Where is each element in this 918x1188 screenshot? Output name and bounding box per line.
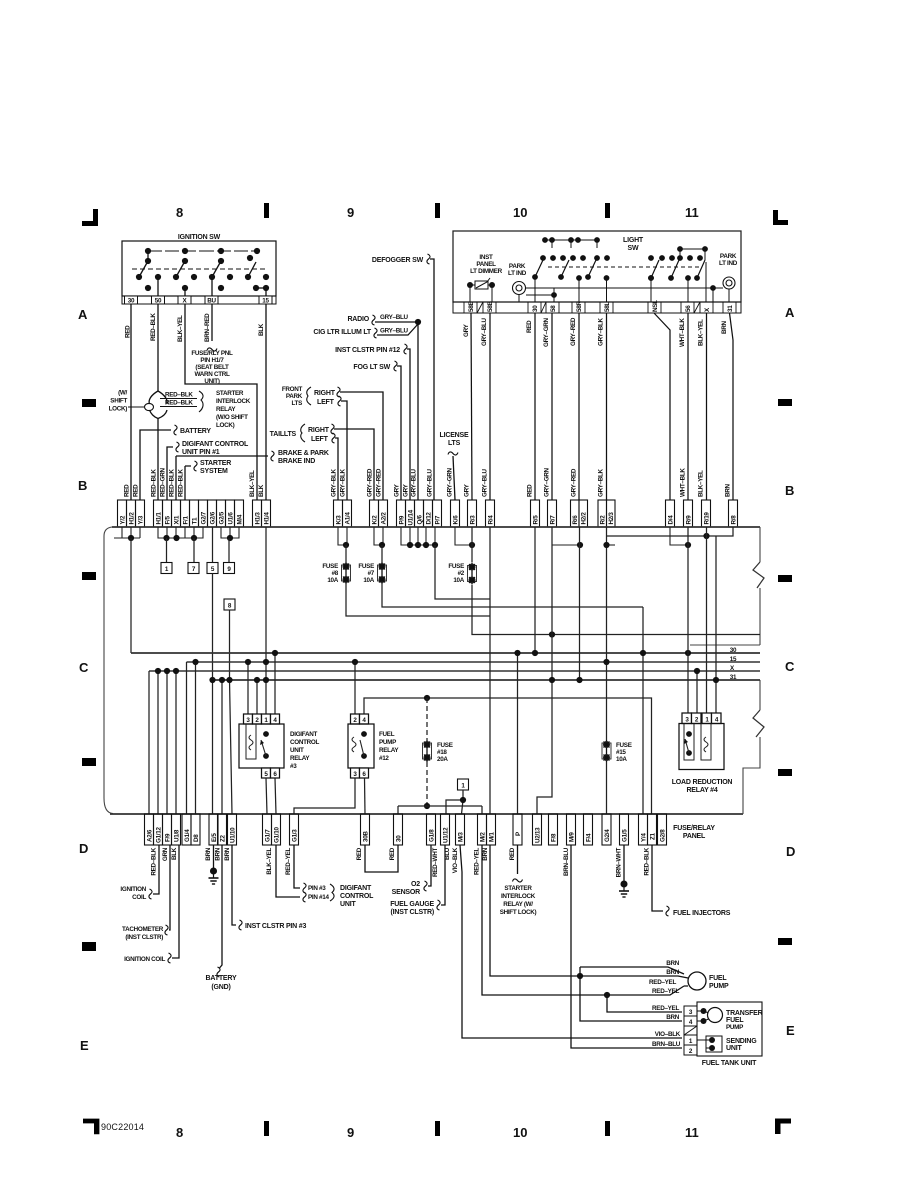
fuse 18 [423, 740, 432, 762]
svg-text:SHIFT: SHIFT [110, 398, 127, 405]
svg-text:COIL: COIL [132, 894, 146, 901]
connector G2/4 [602, 814, 611, 845]
connector F/1 [181, 500, 190, 527]
connector K/6 [451, 500, 460, 527]
svg-text:BRN: BRN [215, 847, 222, 860]
svg-text:BRN–RED: BRN–RED [204, 313, 211, 342]
svg-text:15: 15 [730, 656, 737, 663]
connector A2/2 [379, 500, 388, 527]
fuse 7 output to rail30 and Y/4 [382, 584, 643, 814]
svg-text:H2/2: H2/2 [581, 512, 588, 525]
ignition terminal 15 [259, 296, 272, 304]
svg-text:GRY–BLU: GRY–BLU [380, 314, 409, 321]
wire RED 30B U-loop 30 [365, 845, 398, 872]
squiggle BRN-RED end [207, 348, 217, 351]
svg-text:U1/14: U1/14 [408, 509, 415, 525]
svg-text:H1/2: H1/2 [129, 512, 136, 525]
svg-text:FUSE: FUSE [322, 563, 338, 570]
relay3 label [290, 731, 319, 770]
edge dash right 1 [778, 399, 792, 406]
svg-text:G1/12: G1/12 [156, 827, 163, 843]
svg-text:BATTERY: BATTERY [206, 975, 237, 982]
svg-text:C: C [79, 660, 89, 675]
license lights label [440, 432, 469, 447]
connector H1/2 [127, 500, 136, 527]
svg-text:IGNITION COIL: IGNITION COIL [124, 956, 165, 963]
taillts right squiggle [331, 424, 334, 434]
svg-text:DIGIFANT CONTROL: DIGIFANT CONTROL [182, 441, 249, 448]
svg-text:BLU: BLU [444, 847, 451, 860]
connector R/2 [598, 500, 607, 527]
ignition stub 50 [157, 277, 159, 296]
ignition switch arm 1 [139, 261, 148, 277]
digifant relay pin2 wire [256, 680, 258, 714]
connector R/6 [571, 500, 580, 527]
svg-text:D: D [79, 841, 88, 856]
wire G1/12 from railX [157, 671, 159, 814]
svg-text:G1/7: G1/7 [265, 829, 272, 842]
digifant pin1 squiggle [176, 442, 179, 452]
starter interlock relay W label [500, 885, 537, 916]
svg-text:(INST CLSTR): (INST CLSTR) [125, 934, 163, 941]
svg-text:RED–BLK: RED–BLK [178, 469, 185, 497]
svg-text:RADIO: RADIO [347, 316, 369, 323]
svg-text:H2/3: H2/3 [608, 512, 615, 525]
wire GRY 58E to R/3 [471, 313, 472, 500]
tachometer squiggle [165, 925, 168, 935]
load reduction relay 4 body [679, 724, 724, 770]
ignition switch contact dots row2 [145, 255, 253, 264]
starter system squiggle [194, 461, 197, 471]
square terminal 7 [188, 563, 199, 574]
brake park ind wire from X/1 [176, 456, 268, 500]
svg-text:RED: RED [356, 847, 363, 860]
svg-text:BRAKE IND: BRAKE IND [278, 458, 315, 465]
fuel pump relay pin box 2 [351, 714, 360, 724]
svg-text:WHT–BLK: WHT–BLK [680, 468, 687, 497]
junction dot radio/cig [415, 319, 421, 325]
svg-text:9: 9 [347, 1125, 354, 1140]
terminal slash 2 [541, 302, 546, 313]
column tick bottom 2 [435, 1121, 440, 1136]
connector U2/13 [533, 814, 542, 845]
front park left squiggle [338, 396, 341, 406]
svg-text:CONTROL: CONTROL [340, 893, 374, 900]
svg-text:PANEL: PANEL [476, 261, 496, 268]
svg-text:RED–YEL: RED–YEL [649, 979, 676, 986]
svg-text:R/3: R/3 [470, 515, 477, 525]
rail 31 [213, 679, 761, 681]
svg-text:(GND): (GND) [211, 984, 230, 991]
sending unit label [726, 1038, 757, 1052]
fuel pump relay pin2 wire [354, 662, 356, 714]
svg-text:E: E [786, 1023, 795, 1038]
svg-text:RED–YEL: RED–YEL [652, 1005, 679, 1012]
relay12 contact [360, 731, 367, 759]
svg-text:LEFT: LEFT [317, 399, 335, 406]
fuse relay panel left border [104, 527, 113, 814]
junction dot R9 bracket [685, 542, 691, 548]
junction dot square1 [460, 797, 466, 803]
svg-text:LICENSE: LICENSE [440, 432, 469, 439]
connector G2/5 [217, 500, 226, 527]
ignition switch arm 2 [176, 261, 185, 277]
bracket P9-U114-Q6-D12-P7 [401, 527, 435, 545]
svg-text:RED: RED [389, 847, 396, 860]
svg-text:RED–YEL: RED–YEL [474, 848, 481, 875]
svg-text:R/4: R/4 [488, 515, 495, 525]
battery gnd squiggle [217, 967, 220, 977]
terminal 56 [681, 302, 694, 313]
edge dash left 1 [82, 399, 96, 407]
wire Z2 from rail31 [221, 680, 223, 814]
svg-text:DIGIFANT: DIGIFANT [290, 731, 317, 738]
svg-text:M/2: M/2 [480, 832, 487, 842]
svg-text:GRY–BLU: GRY–BLU [482, 468, 489, 497]
connector Y/2 [118, 500, 127, 527]
digifant pin3 squiggle [303, 883, 306, 893]
terminal 58R [572, 302, 585, 313]
fuel pump label [709, 975, 729, 990]
svg-text:K/2: K/2 [372, 515, 379, 525]
svg-text:#15: #15 [616, 749, 626, 756]
wire BLK-YEL from ignition X elbow to H1/3 [185, 304, 257, 500]
svg-text:GRY–RED: GRY–RED [376, 468, 383, 497]
svg-text:D/12: D/12 [426, 512, 433, 525]
svg-text:LIGHT: LIGHT [623, 237, 644, 244]
wire A2/6 from railX [148, 671, 150, 814]
relay3 coil [249, 735, 253, 750]
svg-text:#18: #18 [437, 749, 447, 756]
svg-text:BRAKE & PARK: BRAKE & PARK [278, 450, 329, 457]
pin box 2 [253, 714, 262, 724]
pin box 1 [262, 714, 271, 724]
svg-text:VIO–BLK: VIO–BLK [452, 847, 459, 873]
panel label FUSE/RELAY PANEL [673, 825, 715, 840]
transfer pump links [697, 1011, 709, 1021]
connector 30 [394, 814, 403, 845]
fuse relay panel right border upper [759, 527, 761, 645]
starter interlock squiggle [513, 879, 523, 882]
ignition terminal 30 [125, 296, 138, 304]
svg-text:INST CLSTR PIN #3: INST CLSTR PIN #3 [245, 923, 306, 930]
connector R/5 [531, 500, 540, 527]
junction dot T1 [191, 535, 197, 541]
svg-text:INTERLOCK: INTERLOCK [501, 893, 536, 900]
square terminal 1 [161, 563, 172, 574]
svg-text:G2/4: G2/4 [604, 829, 611, 842]
svg-text:30: 30 [128, 298, 135, 305]
svg-text:RED: RED [526, 320, 533, 333]
svg-text:58L: 58L [604, 302, 611, 312]
load reduction relay pin box 1 [702, 713, 712, 724]
internal stub 30 [470, 240, 729, 302]
svg-text:UNIT: UNIT [726, 1045, 742, 1052]
svg-text:K/6: K/6 [453, 515, 460, 525]
connector G1/3 [290, 814, 299, 845]
svg-text:10A: 10A [616, 756, 627, 763]
connector Q/6 [415, 500, 424, 527]
connector D/4 [666, 500, 675, 527]
svg-text:F/9: F/9 [165, 833, 172, 842]
fuse 8 [345, 545, 347, 562]
relay4 contact [684, 731, 692, 756]
svg-text:H1/4: H1/4 [264, 512, 271, 525]
svg-text:RED: RED [133, 484, 140, 497]
svg-text:LEFT: LEFT [311, 436, 329, 443]
fuel pump relay 12 body [348, 724, 374, 768]
svg-text:BRN–WHT: BRN–WHT [616, 848, 623, 878]
ignition switch terminal strip [122, 296, 276, 304]
svg-text:11: 11 [685, 205, 699, 220]
svg-text:1: 1 [689, 1038, 693, 1045]
svg-text:BLK–YEL: BLK–YEL [249, 470, 256, 497]
wire GRY-BLU defogger to P/7 [430, 259, 434, 500]
wire BRN Z2 to battery ground [220, 845, 223, 968]
svg-text:58E: 58E [468, 302, 475, 312]
svg-text:BRN: BRN [725, 484, 732, 497]
svg-text:A: A [785, 305, 795, 320]
wire RED-WHT G1/8 to O2 sensor [428, 845, 431, 886]
svg-text:CIG LTR ILLUM LT: CIG LTR ILLUM LT [313, 329, 372, 336]
O2 sensor squiggle [424, 881, 427, 891]
svg-text:FUEL INJECTORS: FUEL INJECTORS [673, 910, 731, 917]
load reduction relay pin box 4 [712, 713, 722, 724]
square terminal 5 [207, 563, 218, 574]
svg-text:BRN: BRN [205, 847, 212, 860]
svg-text:3: 3 [689, 1009, 693, 1016]
svg-text:INST CLSTR PIN #12: INST CLSTR PIN #12 [335, 347, 400, 354]
svg-text:(INST CLSTR): (INST CLSTR) [391, 909, 434, 916]
square terminal 1 panel [458, 779, 469, 790]
fuse relay panel right border lower [743, 680, 760, 814]
fuse 8 output to R/4 [346, 584, 490, 616]
shift lock link line [128, 406, 144, 408]
svg-text:RELAY: RELAY [216, 406, 236, 413]
terminal slash 3 [694, 302, 700, 313]
svg-text:O2: O2 [411, 881, 420, 888]
license squiggle [448, 452, 458, 455]
relay12 bottom pin 3 [351, 768, 360, 778]
svg-text:56: 56 [685, 305, 692, 312]
wire GRY-BLK 58L to R/2 [606, 313, 608, 500]
bracket H11-F5-X1-F1 [158, 527, 185, 538]
svg-text:#3: #3 [290, 763, 297, 770]
svg-text:U1/6: U1/6 [228, 512, 235, 525]
square terminal 8 [224, 599, 235, 610]
tank pin 4 [684, 1016, 697, 1026]
wire GRY-BLU radio [375, 321, 418, 323]
starter interlock relay W/O note [216, 390, 251, 429]
svg-text:P: P [515, 832, 522, 836]
svg-text:RED–BLK: RED–BLK [644, 847, 651, 875]
fuse 8 label [322, 563, 338, 584]
terminal 58 [546, 302, 559, 313]
fuse 2 [471, 527, 473, 562]
svg-text:DIGIFANT: DIGIFANT [340, 885, 372, 892]
wire D8 from rail15 [195, 662, 197, 814]
svg-text:(W/: (W/ [118, 390, 127, 397]
svg-text:IGNITION: IGNITION [120, 886, 146, 893]
column tick top 3 [605, 203, 610, 218]
shift lock contact circle [145, 403, 154, 410]
sending unit box [706, 1036, 722, 1052]
wire R/6 to rail31 [579, 527, 581, 680]
connector U1/14 [406, 500, 415, 527]
drop G2/6 to square 5 [212, 527, 214, 562]
channel P9 group to M/1 [435, 545, 490, 599]
junction dot pin2 railX [694, 668, 700, 674]
svg-text:NSL: NSL [652, 300, 659, 312]
edge dash right 4 [778, 938, 792, 945]
relay3 bottom pin 5 [262, 768, 271, 778]
square terminal 9 [224, 563, 235, 574]
light switch terminal strip [453, 302, 741, 313]
connector G1/7 [263, 814, 272, 845]
connector D/12 [424, 500, 433, 527]
terminal 30 [528, 302, 541, 313]
connector G1/10 [272, 814, 281, 845]
svg-text:RED: RED [125, 325, 132, 338]
svg-text:U1/10: U1/10 [230, 827, 237, 843]
relay12 coil [352, 737, 356, 752]
terminal 31 [723, 302, 736, 313]
svg-text:10: 10 [513, 1125, 527, 1140]
digifant pin1 wire to F/5 [167, 447, 173, 500]
PANEL [104, 527, 764, 840]
light switch arm dots left [532, 274, 591, 298]
svg-text:G1/10: G1/10 [274, 827, 281, 843]
svg-text:BU: BU [207, 298, 216, 305]
connector R/19 [702, 500, 711, 527]
fuse 2 output line [472, 585, 760, 635]
ignition terminal 50 [152, 296, 165, 304]
ignition switch contact dots row4 [145, 285, 269, 291]
svg-text:RED–BLK: RED–BLK [169, 469, 176, 497]
svg-text:LT IND: LT IND [719, 260, 738, 267]
IGNITION-AREA [109, 234, 329, 500]
svg-text:PARK: PARK [720, 253, 737, 260]
svg-text:Y/3: Y/3 [138, 515, 145, 524]
bracket Y2-H12-Y3 [114, 527, 140, 538]
svg-text:F/8: F/8 [551, 833, 558, 842]
svg-text:X/1: X/1 [174, 515, 181, 524]
svg-text:RED–BLK: RED–BLK [151, 847, 158, 875]
bracket T1-G27 [185, 527, 203, 538]
svg-text:LOCK): LOCK) [109, 406, 128, 413]
park lt ind right bulb [723, 277, 735, 289]
bracket D4-R9 [670, 527, 688, 545]
LIGHT-SWITCH [453, 231, 741, 500]
svg-text:GRY–GRN: GRY–GRN [447, 467, 454, 497]
svg-text:15: 15 [262, 298, 269, 305]
ignition terminal BU [205, 296, 218, 304]
inst clstr squiggle [404, 344, 407, 354]
fuse 18 output dashed [426, 762, 428, 806]
connector F/8 [549, 814, 558, 845]
ignition jumper 15 [256, 287, 266, 289]
relay12 label [379, 731, 399, 762]
svg-text:UNIT: UNIT [340, 901, 356, 908]
O2 sensor label [392, 881, 421, 896]
svg-text:BRN: BRN [666, 969, 679, 976]
svg-text:R/8: R/8 [731, 515, 738, 525]
svg-text:GRY–BLU: GRY–BLU [481, 317, 488, 346]
junction dots H11 bracket [163, 535, 169, 541]
svg-text:LTS: LTS [448, 440, 461, 447]
svg-text:D/4: D/4 [668, 515, 675, 525]
inst clstr pin3 squiggle [239, 920, 242, 930]
wire BLK-YEL G1/10 to digifant pin14 [276, 845, 300, 897]
ignition switch contact dots row1 [145, 248, 260, 254]
connector G1/5 [620, 814, 629, 845]
dimmer rheostat [470, 278, 492, 289]
svg-text:GRY: GRY [394, 483, 401, 497]
svg-text:PIN #3: PIN #3 [308, 885, 326, 892]
rail30 junction dots [514, 650, 691, 656]
svg-text:10A: 10A [453, 577, 464, 584]
transfer pump link dots [701, 1008, 707, 1014]
svg-text:BATTERY: BATTERY [180, 428, 211, 435]
wire front park left to A1/4 [341, 401, 347, 500]
svg-text:90C22014: 90C22014 [101, 1122, 144, 1132]
junction dot fuse2 out [549, 631, 555, 637]
svg-text:10A: 10A [327, 577, 338, 584]
wire R/5 to rail30 [534, 527, 536, 653]
junction dot fuse18 out [424, 803, 430, 809]
svg-text:R/9: R/9 [686, 515, 693, 525]
fuse 7 label [358, 563, 374, 584]
bracket R7-R6 [552, 544, 580, 546]
rail 15 [187, 661, 761, 663]
column tick top 2 [435, 203, 440, 218]
svg-text:M/1: M/1 [489, 832, 496, 842]
svg-text:UNIT PIN #1: UNIT PIN #1 [182, 449, 220, 456]
svg-text:INTERLOCK: INTERLOCK [216, 398, 251, 405]
digifant relay junction dots [245, 650, 278, 683]
wire GRY-BLU 58B to R/4 [489, 313, 491, 500]
svg-text:30: 30 [730, 647, 737, 654]
svg-text:8: 8 [176, 1125, 183, 1140]
svg-text:M/3: M/3 [458, 832, 465, 842]
junction dot fuse7 rail30 [640, 650, 646, 656]
connector M/2 [478, 814, 487, 845]
svg-text:RELAY: RELAY [379, 747, 399, 754]
wire relay12 pin3 to G1/3 [294, 778, 355, 814]
wire front park right to A2/2 [340, 392, 383, 500]
battery squiggle [174, 425, 177, 435]
edge dash right 3 [778, 769, 792, 776]
svg-text:LT IND: LT IND [508, 270, 527, 277]
column tick top 1 [264, 203, 269, 218]
connector H1/3 [253, 500, 262, 527]
svg-text:LOAD REDUCTION: LOAD REDUCTION [672, 779, 733, 786]
terminal 58E [464, 302, 477, 313]
svg-text:58B: 58B [487, 301, 494, 312]
battery wire to Y/3 [140, 430, 171, 500]
svg-text:RED–BLK: RED–BLK [165, 400, 193, 407]
sending unit dots [709, 1037, 715, 1043]
connector G2/7 [199, 500, 208, 527]
wire relay3 pin5 to G1/7 [266, 778, 267, 814]
fuel pump relay pin box 4 [360, 714, 369, 724]
svg-text:UNIT): UNIT) [204, 378, 219, 385]
terminal slash 1 [477, 302, 483, 313]
svg-text:8: 8 [176, 205, 183, 220]
svg-text:BRN: BRN [224, 847, 231, 860]
fuel pump relay pin4 wire from fuse18 line [364, 698, 652, 814]
svg-text:PUMP: PUMP [726, 1024, 743, 1031]
